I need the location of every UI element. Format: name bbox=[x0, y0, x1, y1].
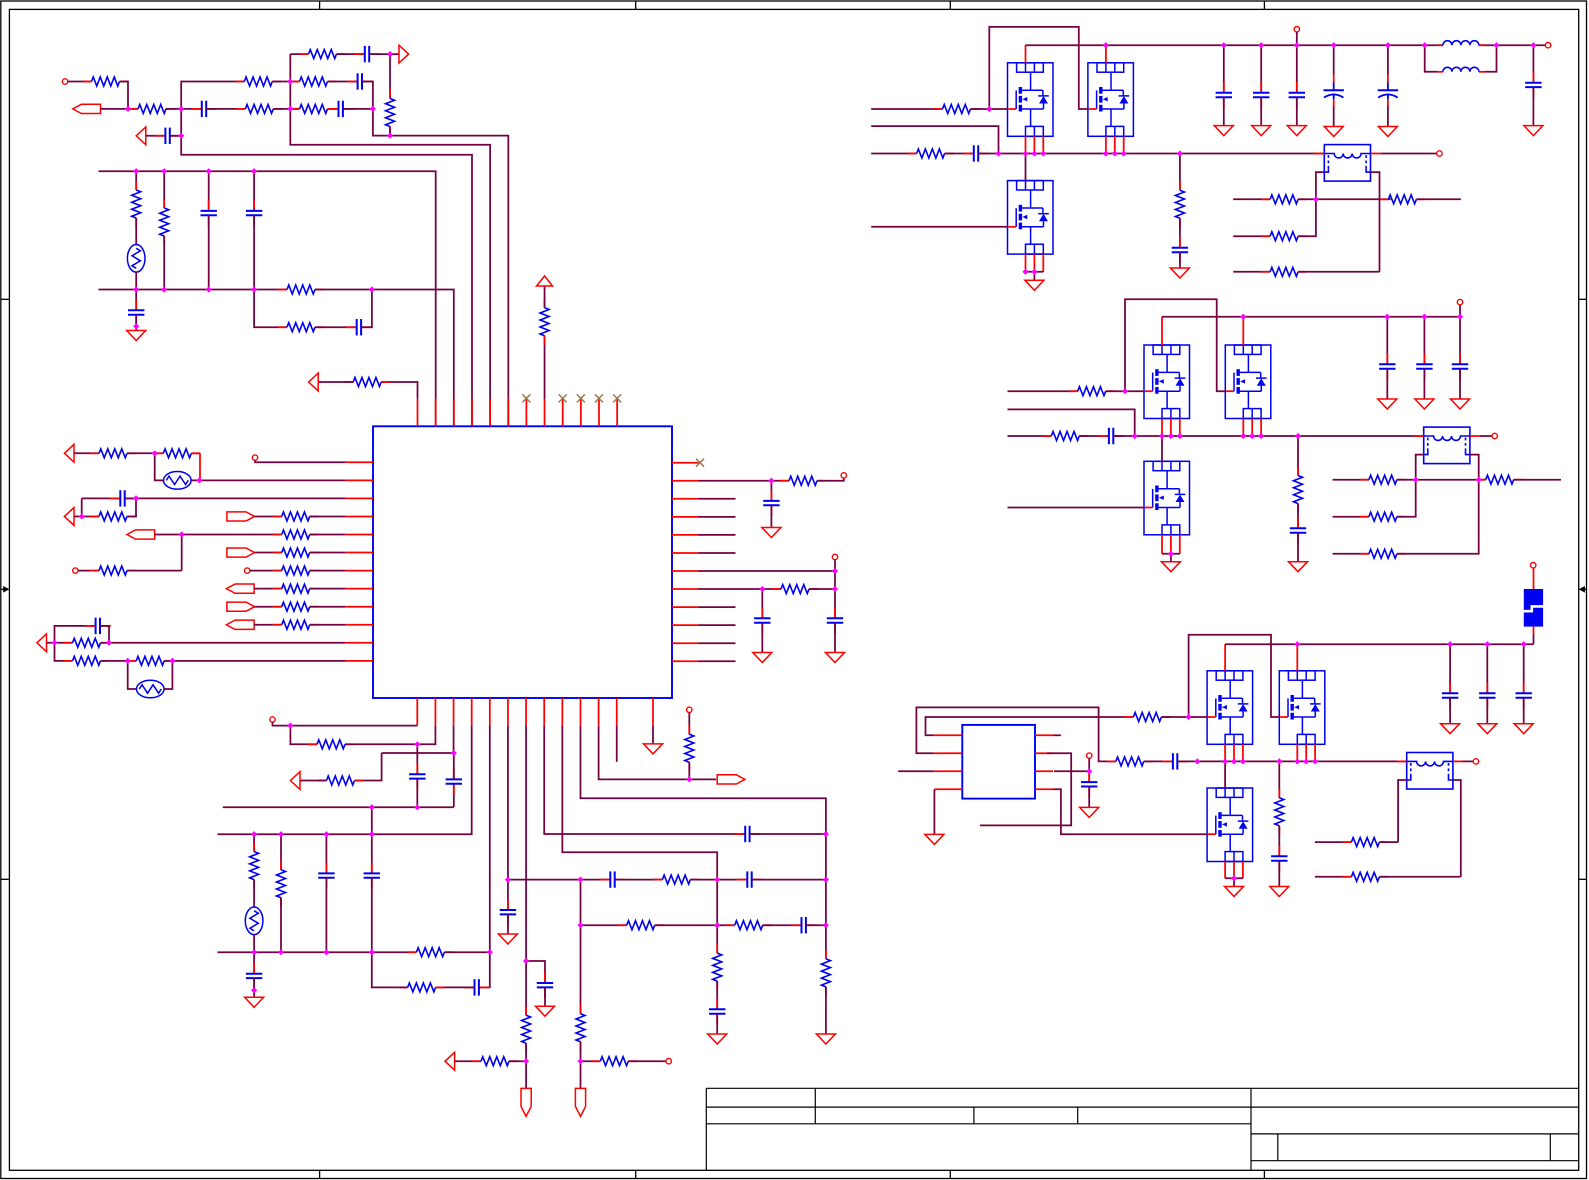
wire bbox=[1297, 436, 1299, 476]
resistor R11 bbox=[278, 285, 324, 294]
power flag bbox=[537, 276, 553, 286]
pin bbox=[1470, 435, 1480, 437]
wire bbox=[834, 571, 836, 589]
wire bbox=[688, 762, 690, 779]
junction bbox=[206, 168, 212, 174]
wire bbox=[99, 171, 436, 426]
wire bbox=[310, 606, 345, 608]
resistor R6 bbox=[291, 77, 337, 86]
resistor R1 bbox=[83, 77, 129, 86]
wire bbox=[120, 82, 129, 109]
pin bbox=[1242, 419, 1244, 437]
resistor R26 bbox=[127, 656, 173, 665]
terminal bbox=[1437, 151, 1442, 156]
wire bbox=[318, 381, 353, 383]
capacitor C36 bbox=[1098, 428, 1124, 444]
pin bbox=[199, 453, 201, 480]
wire bbox=[770, 505, 772, 527]
wire bbox=[255, 606, 282, 608]
wire bbox=[1397, 479, 1486, 481]
capacitor C8 bbox=[128, 300, 144, 326]
wire bbox=[135, 218, 137, 245]
resistor R18 bbox=[90, 566, 136, 575]
wire bbox=[525, 726, 527, 961]
junction bbox=[251, 949, 257, 955]
resistor R41 bbox=[821, 950, 830, 996]
ground bbox=[816, 1034, 835, 1044]
wire bbox=[699, 534, 736, 536]
wire bbox=[181, 82, 244, 109]
capacitor C41 bbox=[1162, 753, 1188, 769]
wire bbox=[206, 108, 245, 110]
wire bbox=[716, 880, 718, 954]
junction bbox=[1177, 150, 1183, 156]
wire bbox=[615, 879, 663, 881]
wire bbox=[1296, 97, 1298, 125]
inductor L2 bbox=[1437, 67, 1485, 72]
resistor R25 bbox=[64, 656, 110, 665]
pin bbox=[1371, 153, 1381, 155]
wire bbox=[1486, 698, 1488, 724]
wire bbox=[1387, 107, 1389, 127]
resistor R34 bbox=[277, 861, 286, 907]
junction bbox=[1022, 150, 1028, 156]
wire bbox=[699, 480, 790, 482]
wire bbox=[315, 326, 357, 328]
pin bbox=[435, 399, 437, 427]
pin bbox=[1170, 419, 1172, 437]
junction bbox=[79, 513, 85, 519]
junction bbox=[287, 78, 293, 84]
port arrow bbox=[64, 444, 74, 462]
resistor R52 bbox=[1261, 232, 1307, 241]
wire bbox=[55, 626, 96, 643]
pin bbox=[1114, 136, 1116, 153]
wire bbox=[272, 81, 299, 83]
wire bbox=[1026, 271, 1044, 273]
ground bbox=[1252, 126, 1271, 136]
wire bbox=[146, 135, 166, 137]
ground bbox=[1225, 887, 1244, 897]
junction bbox=[251, 286, 257, 292]
junction bbox=[152, 450, 158, 456]
pin bbox=[345, 534, 373, 536]
junction bbox=[1031, 269, 1037, 275]
wire bbox=[978, 153, 1324, 155]
wire bbox=[310, 588, 345, 590]
wire bbox=[1463, 760, 1473, 762]
wire bbox=[1315, 876, 1352, 878]
junction bbox=[1457, 314, 1463, 320]
terminal bbox=[1545, 43, 1550, 48]
wire bbox=[47, 642, 73, 644]
wire bbox=[100, 626, 109, 643]
wire bbox=[1298, 198, 1391, 200]
wire bbox=[1260, 45, 1262, 93]
junction bbox=[1413, 477, 1419, 483]
wire bbox=[544, 286, 546, 308]
wire bbox=[444, 951, 489, 953]
wire bbox=[371, 807, 373, 834]
capacitor C26 bbox=[734, 826, 760, 842]
capacitor C43 bbox=[1442, 683, 1458, 709]
resistor R14 bbox=[154, 449, 200, 458]
ground bbox=[245, 997, 264, 1007]
wire bbox=[181, 109, 472, 426]
pin bbox=[616, 698, 618, 726]
wire bbox=[1225, 643, 1533, 645]
wire bbox=[127, 570, 182, 572]
pin bbox=[345, 606, 373, 608]
junction bbox=[251, 987, 257, 993]
wire bbox=[1296, 45, 1298, 93]
pin bbox=[579, 698, 581, 726]
wire bbox=[325, 834, 327, 873]
wire bbox=[369, 53, 399, 55]
wire bbox=[362, 82, 373, 109]
resistor R42 bbox=[576, 1005, 585, 1051]
wire bbox=[599, 726, 690, 780]
ground bbox=[127, 331, 146, 341]
terminal bbox=[73, 568, 78, 573]
no-connect bbox=[613, 394, 621, 402]
MOSFET Q9 bbox=[1207, 788, 1253, 862]
wire bbox=[1144, 760, 1173, 762]
wire bbox=[1333, 45, 1335, 75]
wire bbox=[164, 661, 172, 689]
junction bbox=[1177, 433, 1183, 439]
wire bbox=[273, 108, 299, 110]
junction bbox=[1294, 641, 1300, 647]
pin bbox=[434, 698, 436, 726]
wire bbox=[371, 878, 373, 952]
wire bbox=[1260, 97, 1262, 125]
wire bbox=[355, 753, 382, 781]
resistor R38 bbox=[618, 921, 664, 930]
wire bbox=[655, 924, 735, 926]
wire bbox=[253, 952, 255, 974]
capacitor C2 bbox=[328, 101, 354, 117]
thermistor RT3 bbox=[137, 680, 165, 698]
MOSFET Q7 bbox=[1207, 671, 1253, 745]
resistor R39 bbox=[726, 921, 772, 930]
resistor R7 bbox=[300, 50, 346, 59]
junction bbox=[161, 286, 167, 292]
wire bbox=[315, 290, 454, 427]
junction bbox=[1168, 551, 1174, 557]
wire bbox=[1449, 698, 1451, 724]
wire bbox=[616, 726, 618, 762]
resistor R19 bbox=[273, 548, 319, 557]
wire bbox=[1533, 634, 1535, 645]
resistor R4 bbox=[291, 104, 337, 113]
wire bbox=[699, 516, 736, 518]
wire bbox=[1054, 770, 1089, 772]
wire bbox=[1459, 369, 1461, 399]
wire bbox=[280, 834, 282, 870]
wire bbox=[1162, 553, 1180, 555]
junction bbox=[577, 922, 583, 928]
wire bbox=[699, 498, 736, 500]
wire bbox=[290, 726, 317, 745]
wire bbox=[253, 880, 255, 907]
pin bbox=[453, 698, 455, 726]
no-connect bbox=[522, 394, 530, 402]
port arrow bbox=[399, 45, 409, 63]
transformer T1 bbox=[1324, 145, 1370, 182]
pin bbox=[1105, 136, 1107, 153]
junction bbox=[1168, 433, 1174, 439]
ground bbox=[1478, 724, 1497, 734]
wire bbox=[453, 753, 455, 779]
wire bbox=[455, 1060, 481, 1062]
wire bbox=[580, 726, 825, 880]
resistor R24 bbox=[64, 638, 110, 647]
wire bbox=[82, 498, 99, 516]
wire bbox=[898, 770, 933, 772]
junction bbox=[832, 568, 838, 574]
ground bbox=[826, 653, 845, 663]
pin bbox=[933, 734, 962, 736]
wire bbox=[1225, 877, 1243, 879]
wire bbox=[1523, 698, 1525, 724]
pin bbox=[471, 698, 473, 726]
junction bbox=[995, 150, 1001, 156]
wire bbox=[453, 784, 455, 807]
pin bbox=[416, 698, 418, 726]
wire bbox=[101, 660, 137, 662]
wire bbox=[300, 780, 326, 782]
wire bbox=[155, 453, 164, 480]
no-connect bbox=[696, 459, 704, 467]
MOSFET Q8 bbox=[1279, 671, 1325, 745]
wire bbox=[310, 515, 345, 517]
no-connect bbox=[577, 394, 585, 402]
pin bbox=[345, 588, 373, 590]
capacitor C4 bbox=[354, 46, 380, 62]
wire bbox=[652, 726, 654, 744]
junction bbox=[161, 168, 167, 174]
wire bbox=[1453, 780, 1461, 877]
wire bbox=[1008, 435, 1052, 437]
wire bbox=[1161, 716, 1207, 718]
wire bbox=[581, 1060, 601, 1062]
capacitor C13 bbox=[754, 608, 770, 634]
pin bbox=[580, 399, 582, 427]
pin bbox=[1296, 744, 1298, 761]
wire bbox=[871, 108, 942, 110]
pin bbox=[345, 479, 373, 481]
junction bbox=[51, 640, 57, 646]
wire bbox=[716, 1014, 718, 1034]
wire bbox=[170, 135, 181, 137]
wire bbox=[1371, 172, 1380, 272]
wire bbox=[280, 898, 282, 952]
junction bbox=[251, 831, 257, 837]
junction bbox=[1031, 150, 1037, 156]
junction bbox=[1521, 641, 1527, 647]
wire bbox=[1025, 154, 1027, 181]
wire bbox=[971, 108, 1008, 110]
resistor R29 bbox=[344, 378, 390, 387]
pin bbox=[933, 752, 962, 754]
terminal bbox=[270, 717, 275, 722]
wire bbox=[761, 623, 763, 653]
resistor R36 bbox=[399, 983, 445, 992]
wire bbox=[1379, 841, 1398, 843]
capacitor C6 bbox=[201, 200, 217, 226]
pin bbox=[525, 399, 527, 427]
pin bbox=[1161, 535, 1163, 554]
pin bbox=[1260, 419, 1262, 437]
wire bbox=[125, 497, 136, 499]
junction bbox=[1276, 758, 1282, 764]
port flag bbox=[227, 512, 255, 521]
no-connect bbox=[559, 394, 567, 402]
junction bbox=[1086, 768, 1092, 774]
border centre arrow left bbox=[1, 588, 6, 590]
connector pin bbox=[521, 1088, 531, 1116]
resistor R2 bbox=[129, 104, 175, 113]
wire bbox=[1532, 87, 1534, 126]
resistor R40 bbox=[713, 944, 722, 990]
no-connect bbox=[595, 394, 603, 402]
resistor R27 bbox=[780, 476, 826, 485]
pin bbox=[1035, 788, 1053, 790]
wire bbox=[253, 834, 255, 851]
pin bbox=[672, 534, 699, 536]
pin bbox=[1033, 254, 1035, 272]
resistor R60 bbox=[1360, 549, 1406, 558]
resistor R50 bbox=[1261, 195, 1307, 204]
wire bbox=[1189, 635, 1280, 717]
wire bbox=[273, 722, 291, 725]
resistor R58 bbox=[1477, 475, 1523, 484]
pin bbox=[345, 515, 373, 517]
terminal bbox=[245, 568, 250, 573]
wire bbox=[82, 497, 121, 499]
wire bbox=[525, 1043, 527, 1088]
wire bbox=[871, 153, 916, 155]
pin bbox=[1397, 760, 1407, 762]
junction bbox=[1447, 641, 1453, 647]
capacitor C34 bbox=[1525, 72, 1541, 98]
junction bbox=[1194, 758, 1200, 764]
resistor R31 bbox=[308, 740, 354, 749]
wire bbox=[135, 290, 137, 311]
pin bbox=[544, 399, 546, 427]
wire bbox=[1179, 154, 1181, 191]
ground bbox=[1378, 127, 1397, 137]
pin bbox=[672, 462, 699, 464]
pin bbox=[598, 399, 600, 427]
wire bbox=[508, 879, 610, 881]
terminal bbox=[1492, 433, 1497, 438]
port flag bbox=[717, 775, 745, 784]
wire bbox=[253, 978, 255, 990]
pin bbox=[525, 698, 527, 726]
wire bbox=[382, 752, 454, 754]
wire bbox=[699, 570, 836, 572]
resistor R12 bbox=[278, 323, 324, 332]
capacitor C9 bbox=[346, 319, 372, 335]
ground bbox=[762, 528, 781, 538]
junction bbox=[1331, 42, 1337, 48]
pin bbox=[672, 588, 699, 590]
capacitor C16 bbox=[446, 769, 462, 795]
junction bbox=[125, 658, 131, 664]
wire bbox=[1423, 369, 1425, 399]
pin bbox=[1224, 644, 1226, 671]
wire bbox=[825, 880, 827, 959]
wire bbox=[1423, 317, 1425, 365]
resistor R32 bbox=[318, 776, 364, 785]
junction bbox=[287, 723, 293, 729]
junction bbox=[1295, 433, 1301, 439]
port arrow bbox=[64, 508, 74, 526]
junction bbox=[178, 106, 184, 112]
resistor R63 bbox=[1275, 789, 1284, 835]
wire bbox=[135, 315, 137, 327]
terminal bbox=[252, 455, 257, 460]
thermistor RT4 bbox=[245, 907, 263, 935]
wire bbox=[1008, 390, 1078, 392]
wire bbox=[343, 108, 373, 110]
pin bbox=[672, 660, 699, 662]
wire bbox=[253, 935, 255, 953]
port flag bbox=[226, 584, 254, 593]
wire bbox=[507, 914, 509, 934]
wire bbox=[135, 272, 137, 290]
wire bbox=[1381, 153, 1437, 155]
wire bbox=[1416, 455, 1424, 480]
junction bbox=[1476, 477, 1482, 483]
ground bbox=[644, 744, 663, 754]
junction bbox=[1303, 758, 1309, 764]
junction bbox=[1422, 42, 1428, 48]
pin bbox=[1105, 45, 1107, 63]
pin bbox=[1025, 254, 1027, 272]
capacitor C37 bbox=[1379, 354, 1395, 380]
wire bbox=[416, 744, 418, 774]
capacitor C23 bbox=[737, 871, 763, 887]
wire bbox=[761, 589, 763, 618]
junction bbox=[1385, 42, 1391, 48]
wire bbox=[1026, 44, 1444, 46]
pin bbox=[1025, 136, 1027, 153]
wire bbox=[1223, 97, 1225, 125]
MOSFET Q2 bbox=[1088, 63, 1134, 137]
resistor R10 bbox=[160, 199, 169, 245]
MOSFET Q6 bbox=[1144, 461, 1190, 535]
wire bbox=[255, 515, 282, 517]
junction bbox=[1221, 42, 1227, 48]
wire bbox=[1459, 317, 1461, 365]
resistor R62 bbox=[1107, 757, 1153, 766]
wire bbox=[254, 588, 282, 590]
pin bbox=[1533, 568, 1535, 589]
wire bbox=[254, 290, 287, 328]
terminal bbox=[1457, 299, 1462, 304]
wire bbox=[74, 452, 99, 454]
ground bbox=[925, 834, 944, 844]
pin bbox=[1314, 744, 1316, 761]
resistor R51 bbox=[1379, 195, 1425, 204]
thermistor RT2 bbox=[164, 472, 192, 490]
pin bbox=[345, 642, 373, 644]
capacitor C15 bbox=[409, 763, 425, 789]
pin bbox=[561, 698, 563, 726]
